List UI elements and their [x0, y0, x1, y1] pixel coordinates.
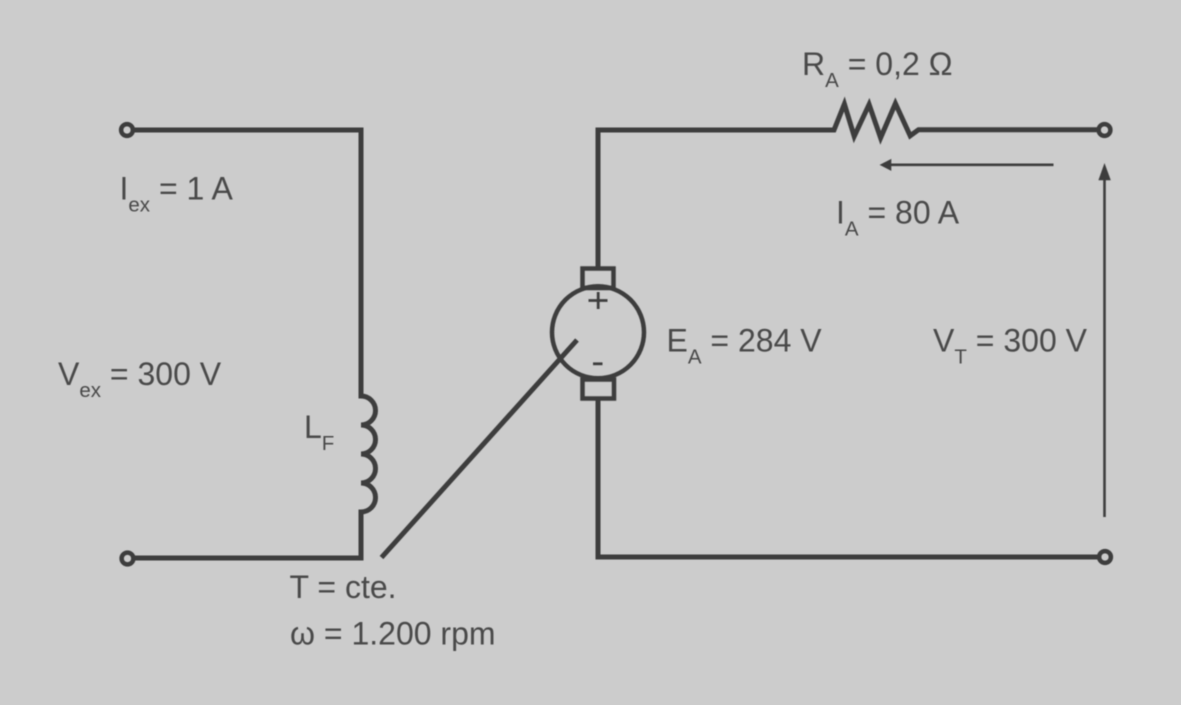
svg-text:T = cte.: T = cte. — [290, 569, 397, 605]
svg-text:ω = 1.200 rpm: ω = 1.200 rpm — [290, 615, 496, 651]
